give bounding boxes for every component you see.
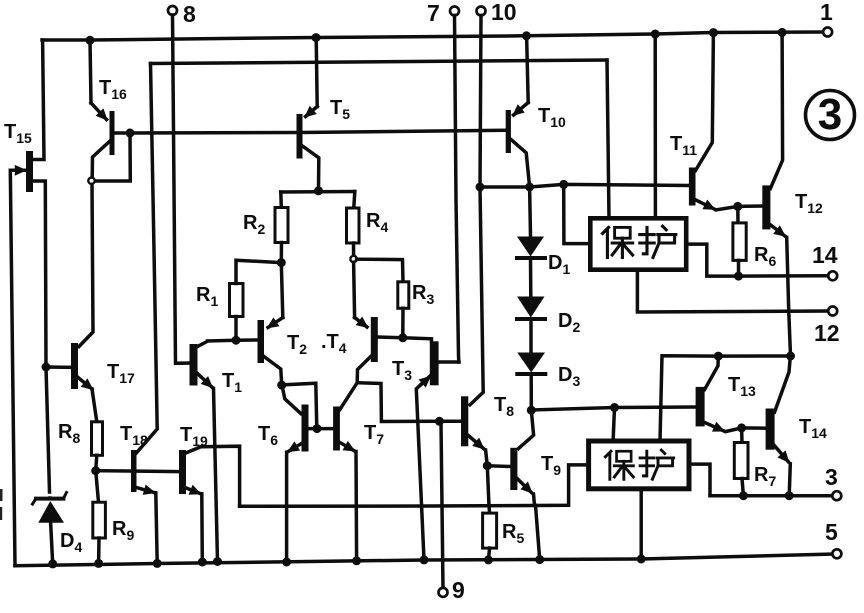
wire: box2 bottom to ground	[639, 489, 643, 559]
wire: output-node to T8 base	[357, 383, 461, 422]
svg-text:5: 5	[825, 519, 838, 545]
wire: R7 bottom lead	[742, 479, 743, 496]
transistor T12	[762, 185, 770, 229]
wire: R2 bottom	[280, 243, 284, 263]
wire: T4 emitter from R4 circle	[354, 262, 355, 317]
transistor T16	[110, 111, 115, 155]
node: R6 top junction	[733, 202, 742, 211]
node: R7 top junction	[737, 423, 746, 432]
node: T16 base junction	[126, 129, 135, 138]
wire: bias bus to T13 base	[531, 407, 695, 410]
node: pin 9 tap junction	[435, 417, 444, 426]
svg-text:10: 10	[491, 0, 517, 25]
pin 12 terminal	[828, 307, 837, 316]
wire: box1 right to R6 bottom	[686, 244, 738, 276]
wire: R3 top feed	[357, 259, 403, 282]
wire: top supply rail to pin 1	[42, 32, 823, 40]
node: T19 emitter ground	[198, 558, 207, 567]
svg-text:D2: D2	[558, 310, 580, 335]
wire: R6 top lead	[736, 206, 740, 223]
transistor T14	[766, 409, 775, 450]
pin 7 terminal	[450, 7, 459, 16]
svg-text:T9: T9	[541, 453, 561, 478]
svg-text:T18: T18	[120, 423, 148, 448]
wire: T15 base lead with left border	[10, 170, 24, 565]
wire: T10 emitter	[527, 36, 529, 103]
wire: left vertical from top rail to T15 collector	[33, 40, 44, 160]
wire: T9 emitter	[517, 479, 531, 493]
node: T10 emitter on top rail	[522, 31, 531, 40]
node: D4 ground	[48, 559, 57, 568]
node: small open circle junction	[88, 178, 94, 184]
resistor R2	[275, 208, 288, 243]
transistor T10	[506, 110, 511, 153]
svg-text:R7: R7	[754, 464, 776, 489]
wire: T7 collector to T4 collector	[340, 383, 357, 410]
node: D3 bottom junction	[527, 406, 536, 415]
svg-text:R9: R9	[112, 518, 134, 543]
node: R3 bottom junction	[398, 333, 407, 342]
svg-text:T5: T5	[330, 97, 350, 122]
svg-text:T10: T10	[538, 105, 566, 130]
wire: feed to R2	[279, 192, 283, 208]
wire: T14 emitter	[775, 446, 789, 462]
wire: T12 emitter to output	[770, 225, 784, 236]
svg-text:R5: R5	[502, 521, 524, 546]
resistor R5	[483, 513, 497, 548]
wire: pin 3 rail	[710, 494, 833, 498]
wire: junction to R9	[96, 471, 99, 503]
wire: R3 bottom	[401, 308, 405, 338]
svg-text:T7: T7	[364, 422, 384, 447]
wire: D4 anode to bottom rail	[51, 524, 53, 564]
wire: T5 collector	[303, 146, 319, 191]
transistor T5	[297, 114, 303, 159]
wire: R6 bottom lead	[737, 260, 741, 276]
wire: base bus T16-T5-T10	[130, 130, 506, 133]
svg-text:T16: T16	[99, 77, 127, 102]
svg-text:T6: T6	[258, 423, 278, 448]
wire: T11 emitter	[696, 200, 715, 209]
svg-text:D3: D3	[558, 364, 580, 389]
wire: inner rail right drop to protection box 1	[607, 60, 609, 218]
svg-text:R3: R3	[412, 282, 434, 307]
svg-text:.T4: .T4	[321, 331, 347, 356]
node: R2 bottom junction	[277, 258, 286, 267]
svg-text:7: 7	[427, 0, 440, 26]
resistor R6	[733, 223, 746, 261]
wire: R1 top feed	[236, 260, 281, 283]
wire: pin 10 to T8 collector	[470, 15, 483, 404]
resistor R9	[93, 502, 106, 538]
node: T2 collector junction	[277, 381, 286, 390]
svg-text:T11: T11	[670, 133, 697, 158]
diode D1	[517, 237, 545, 259]
node: box1 top rail tap	[651, 30, 660, 39]
transistor T11	[689, 168, 696, 206]
svg-text:T13: T13	[728, 374, 756, 399]
svg-text:3: 3	[825, 464, 838, 490]
svg-text:R8: R8	[58, 421, 80, 446]
transistor T13	[696, 387, 705, 427]
svg-text:R6: R6	[754, 244, 776, 269]
scan smudge left edge	[0, 489, 3, 520]
transistor T8	[461, 396, 468, 446]
diode D2	[517, 297, 545, 320]
wire: driver node bus	[480, 184, 689, 187]
transistor T3	[430, 341, 439, 385]
node: R9 ground	[94, 559, 103, 568]
wire: T4 base to T3	[378, 337, 432, 342]
wire: T19 emitter	[186, 488, 200, 494]
wire: feed to R4	[354, 192, 355, 209]
wire: D4 cathode up lead	[48, 496, 52, 500]
transistor T19	[179, 450, 186, 494]
wire: T19 collector	[186, 446, 239, 506]
svg-text:T19: T19	[180, 424, 208, 449]
pin 10 terminal	[477, 7, 486, 16]
transistor T4	[371, 317, 378, 362]
node: T14 emitter junction	[785, 491, 794, 500]
svg-text:T3: T3	[392, 358, 412, 383]
wire: T2 coll to T6/T7 base riser	[282, 383, 317, 428]
wire: T18 emitter	[137, 488, 155, 493]
wire: tail current bus	[240, 465, 589, 506]
node: output node	[786, 352, 795, 361]
svg-text:T12: T12	[795, 191, 823, 216]
wire: T16 base lead	[115, 131, 131, 135]
wire: junction down to D4	[46, 367, 50, 492]
node: R6 bottom junction	[734, 272, 743, 281]
transistor T1	[190, 344, 198, 386]
svg-text:D1: D1	[548, 252, 570, 277]
wire: R4 bottom	[352, 243, 356, 256]
node: pin10/T8 junction	[476, 183, 485, 192]
wire: T16 base-collector loop	[96, 133, 131, 181]
svg-text:T15: T15	[4, 121, 32, 146]
wire: base wire T18/T19	[96, 469, 179, 473]
wire: T14 collector	[775, 357, 791, 413]
wire: T6 emitter	[289, 444, 302, 452]
node: ground junction	[535, 555, 544, 564]
wire: R1 bottom lead	[234, 317, 238, 341]
transistor T17	[71, 343, 78, 389]
wire: T2 collector	[264, 357, 282, 386]
wire: top rail to box1	[653, 34, 657, 218]
svg-text:14: 14	[812, 242, 838, 268]
wire: T17 emitter	[78, 378, 92, 390]
circled figure number 3	[806, 91, 855, 140]
wire: T11 collector	[696, 33, 714, 171]
wire: T5 emitter	[316, 38, 317, 107]
node: T9 base junction	[483, 461, 492, 470]
diode D4 (zener)	[33, 493, 67, 523]
node: T12 collector on top rail	[778, 28, 787, 37]
wire: T3 base lead to pin 7 line	[439, 360, 459, 364]
wire: box1 bottom to pin 12	[637, 270, 828, 312]
wire: pin 8 to T1 base	[173, 15, 190, 363]
node: T18 emitter ground	[153, 559, 162, 568]
wire: node drop to ground	[536, 505, 540, 559]
wire: bottom ground rail	[15, 554, 833, 566]
svg-text:T17: T17	[107, 361, 135, 386]
wire: T3 emitter	[416, 372, 434, 559]
transistor T6	[302, 405, 309, 452]
wire: T13 emitter	[705, 423, 724, 431]
wire: T1 emitter	[198, 374, 212, 388]
svg-text:9: 9	[452, 577, 465, 603]
wire: T1 collector	[198, 341, 208, 346]
node: R5 ground	[484, 555, 493, 564]
wire: R5 to ground	[488, 548, 489, 560]
node: T13 collector junction	[714, 352, 723, 361]
transistor T9	[510, 448, 517, 490]
wire: R7 top lead	[740, 428, 744, 443]
node: T10 collector / D1 junction	[525, 183, 534, 192]
svg-text:3: 3	[818, 90, 842, 139]
node: T6/T7 base junction	[313, 424, 322, 433]
transistor T15	[24, 151, 33, 192]
pin 8 terminal	[168, 6, 177, 15]
wire: T16 collector down to T17 collector	[79, 184, 93, 346]
svg-text:T2: T2	[287, 332, 307, 357]
wire: pin 7 line	[455, 15, 459, 362]
node: T11 collector on top rail	[709, 28, 718, 37]
wire: T15 emitter to T17 base rail	[33, 181, 46, 367]
wire: R9 to bottom rail	[97, 538, 101, 563]
resistor R3	[398, 282, 409, 309]
wire: inner rail	[151, 60, 608, 64]
wire: D2-D3 lead	[529, 319, 533, 352]
wire: D1-D2 lead	[529, 258, 533, 296]
node: T5 collector junction	[314, 186, 323, 195]
wire: T13 collector	[705, 356, 719, 389]
svg-text:T1: T1	[222, 370, 242, 395]
wire: T12 collector	[770, 32, 782, 188]
wire: T6 collector from T2 junction	[282, 386, 301, 413]
wire: R5 top lead	[487, 506, 491, 513]
node: T17 base junction	[42, 363, 51, 372]
wire: T7 emitter	[340, 443, 354, 451]
node: T6 emitter ground	[282, 558, 291, 567]
wire: R2/R4 feed	[281, 190, 355, 194]
wire: tap down to protection box 2	[613, 408, 614, 442]
node: R8/R9 junction	[91, 466, 100, 475]
node: T5 emitter on top rail	[312, 33, 321, 42]
node: T3 emitter ground	[420, 555, 429, 564]
wire: T1 collector to T2 base	[208, 340, 258, 341]
wire: D1 top lead	[528, 187, 532, 236]
node: R1 bottom junction	[232, 336, 241, 345]
pin 1 terminal	[823, 28, 832, 37]
node: R7 bottom junction	[739, 491, 748, 500]
pin 14 terminal	[828, 271, 837, 280]
wire: T9 base lead	[487, 464, 510, 468]
wire: T16 collector	[92, 141, 110, 177]
svg-text:R1: R1	[196, 284, 218, 309]
protection box 2	[589, 441, 689, 489]
transistor T7	[333, 407, 340, 451]
wire: to pin 14	[739, 274, 829, 278]
wire: output node bus to box2	[660, 356, 791, 441]
svg-text:T14: T14	[799, 416, 827, 441]
wire: T8 emitter	[468, 436, 483, 449]
wire: R8 to junction	[96, 455, 97, 470]
wire: tap down to protection box 1	[564, 184, 589, 243]
transistor T2	[258, 320, 265, 363]
wire: T10 collector	[511, 140, 530, 187]
pin 3 terminal	[832, 491, 841, 500]
svg-text:8: 8	[183, 1, 196, 27]
svg-text:1: 1	[820, 0, 833, 25]
resistor R7	[734, 443, 748, 479]
resistor R8	[92, 422, 103, 456]
node: protection box 1 tap	[559, 180, 568, 189]
wire: T9 collector	[519, 410, 534, 448]
node: T7 emitter ground	[352, 556, 361, 565]
svg-text:T8: T8	[494, 394, 514, 419]
node: box2 ground	[637, 555, 646, 564]
wire: pin3 rail left to box2	[687, 464, 710, 496]
wire: pin 9 line	[441, 423, 443, 588]
pin 9 terminal	[439, 588, 448, 597]
resistor R4	[347, 208, 360, 243]
svg-text:R2: R2	[243, 212, 265, 237]
node: T16 emitter on top rail	[86, 36, 95, 45]
wire: D3 bottom lead	[529, 374, 533, 410]
svg-text:R4: R4	[366, 210, 388, 235]
node: protection box 2 tap	[610, 403, 619, 412]
wire: T2 emitter from R2 junction	[281, 263, 283, 318]
diode D3	[517, 353, 545, 375]
transistor T18	[131, 450, 137, 492]
node: T1 emitter ground	[213, 557, 222, 566]
protection box 1	[590, 218, 686, 269]
wire: inner rail left drop to T18 collector	[137, 64, 158, 453]
svg-text:D4: D4	[60, 530, 82, 555]
wire: T17 base lead	[46, 365, 71, 369]
pin 5 terminal	[832, 549, 841, 558]
wire: T4 collector	[357, 357, 371, 383]
resistor R1	[230, 284, 244, 317]
node: R4 bottom open circle	[350, 256, 356, 262]
wire: T16 emitter	[90, 40, 91, 103]
svg-text:12: 12	[814, 320, 840, 346]
wire: T6-T7 base tie	[309, 427, 334, 431]
